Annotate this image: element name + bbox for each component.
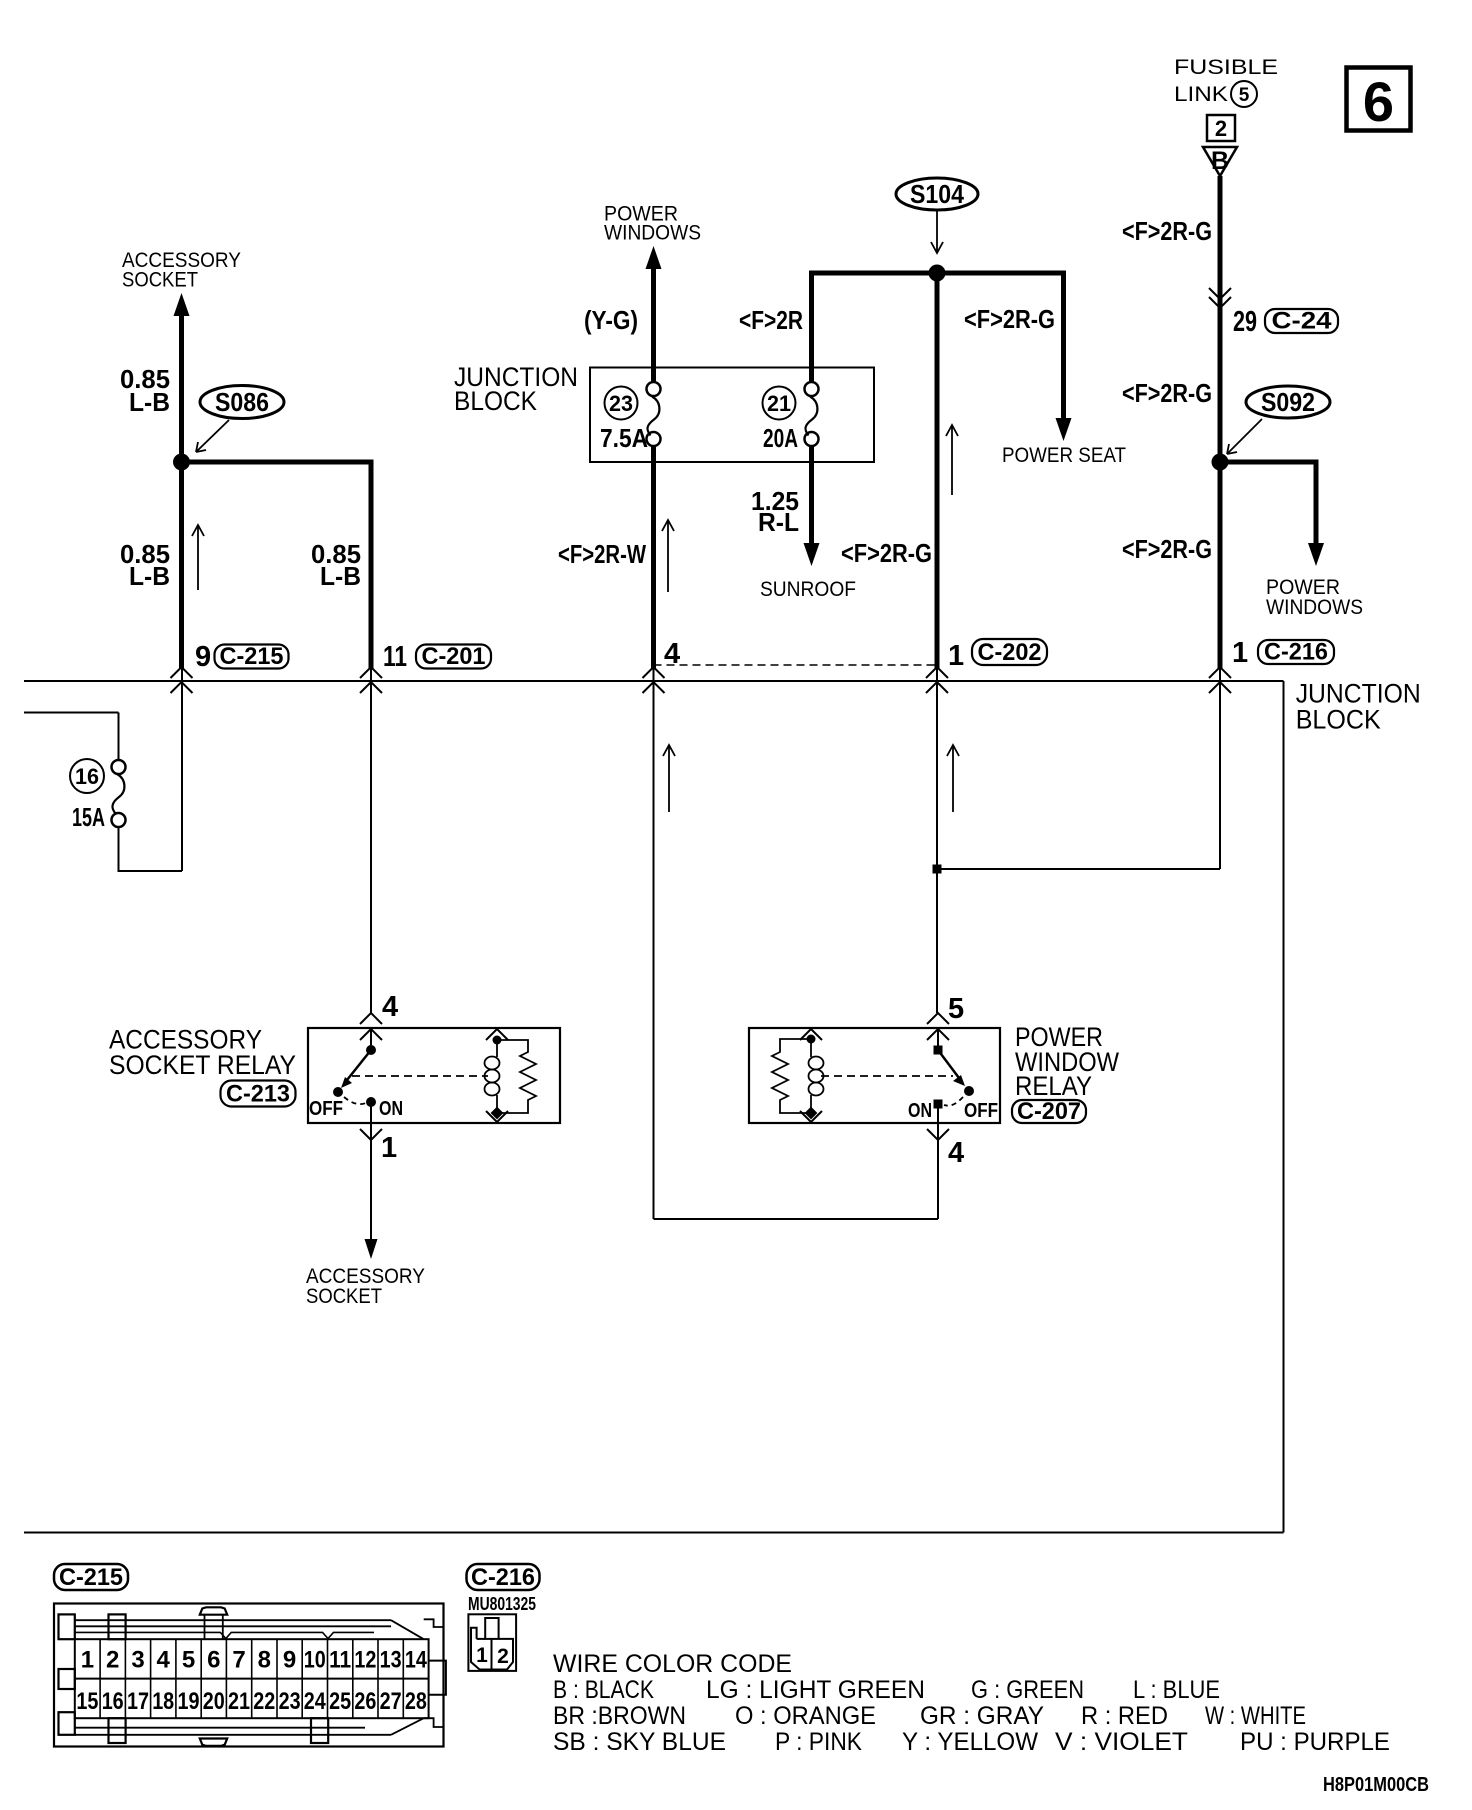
svg-text:PU : PURPLE: PU : PURPLE [1240, 1728, 1390, 1756]
page number box 6 [1347, 68, 1411, 131]
svg-text:H8P01M00CB: H8P01M00CB [1323, 1774, 1429, 1796]
ON contact dot [366, 1097, 376, 1107]
svg-text:4: 4 [157, 1647, 171, 1674]
connector C-213 (label) [221, 1081, 296, 1107]
svg-text:Y : YELLOW: Y : YELLOW [902, 1728, 1038, 1756]
svg-text:25: 25 [329, 1688, 351, 1715]
svg-text:W : WHITE: W : WHITE [1205, 1702, 1306, 1730]
circled 23 [605, 387, 638, 420]
chevrons pin 1 C-216 entry [1209, 667, 1231, 678]
svg-text:13: 13 [380, 1647, 402, 1674]
connector C-24 (pin label) [1265, 309, 1338, 333]
fuse 16 element (two circles + S-curve) [112, 760, 126, 774]
svg-text:ON: ON [379, 1098, 403, 1120]
wire: fuse 16 lower lead [118, 827, 120, 872]
svg-text:OFF: OFF [964, 1100, 998, 1122]
svg-text:9: 9 [283, 1647, 296, 1674]
dashed link pin4 to pin1 [654, 664, 938, 666]
relay coil (left relay) [486, 1029, 508, 1040]
flow arrow (thin) x=952 [951, 426, 953, 495]
svg-text:FUSIBLE: FUSIBLE [1174, 56, 1278, 79]
svg-text:L-B: L-B [320, 561, 361, 591]
chevrons pin 4 relay entry [360, 1013, 382, 1024]
wire: pin9 tail inside junction block [181, 668, 183, 871]
wire: fusible link feed x=1220 [1218, 176, 1223, 668]
node S092 junction dot [1212, 454, 1229, 471]
svg-text:B: B [1211, 147, 1229, 175]
svg-text:C-213: C-213 [226, 1081, 290, 1108]
svg-text:24: 24 [304, 1688, 327, 1715]
svg-text:LG : LIGHT GREEN: LG : LIGHT GREEN [706, 1676, 925, 1704]
svg-text:3: 3 [131, 1647, 144, 1674]
circled 21 [763, 387, 796, 420]
svg-text:2: 2 [106, 1647, 119, 1674]
arrow to accessory socket (bottom) [365, 1239, 378, 1259]
wire: elbow down to fuse 21 [809, 271, 814, 383]
svg-text:SOCKET RELAY: SOCKET RELAY [109, 1050, 296, 1080]
svg-text:21: 21 [767, 391, 791, 416]
svg-text:R-L: R-L [758, 507, 799, 537]
connector C-215 pin numbers row 1 [81, 1647, 428, 1674]
svg-text:11: 11 [383, 641, 407, 673]
wire: branch down x=1316 [1314, 460, 1319, 546]
junction block fuse box [590, 368, 874, 463]
node S086 junction dot [173, 454, 190, 471]
power window relay box C-207 [749, 1028, 1000, 1123]
svg-text:2: 2 [497, 1645, 509, 1668]
svg-text:7: 7 [232, 1647, 245, 1674]
wire: relay pin1 down to accessory socket arrow [370, 1102, 372, 1240]
wire: power seat branch down x=1063.5 [1061, 271, 1066, 421]
svg-text:18: 18 [152, 1688, 174, 1715]
svg-text:SB : SKY BLUE: SB : SKY BLUE [553, 1728, 726, 1756]
svg-text:10: 10 [304, 1647, 326, 1674]
wire: x=371 down to C-201 pin 11 [369, 460, 374, 668]
switch arm to OFF [347, 1050, 371, 1080]
wire: fuse 16 branch horizontal y=871 [119, 870, 183, 872]
connector C-201 (pin label) [416, 645, 491, 669]
svg-text:RELAY: RELAY [1015, 1071, 1092, 1101]
connector C-216 drawing [468, 1614, 516, 1671]
svg-text:23: 23 [279, 1688, 301, 1715]
wire: fuse 16 upper lead [118, 713, 120, 761]
svg-text:V : VIOLET: V : VIOLET [1055, 1728, 1188, 1756]
splice S104 [896, 178, 978, 210]
svg-text:17: 17 [127, 1688, 149, 1715]
svg-text:C-207: C-207 [1017, 1098, 1081, 1125]
svg-text:G : GREEN: G : GREEN [971, 1676, 1084, 1704]
svg-text:C-215: C-215 [59, 1564, 123, 1591]
junction block right boundary [1283, 681, 1285, 1533]
chevrons pin 11 at junction block entry [360, 667, 382, 678]
circled 16 [70, 759, 104, 793]
svg-text:19: 19 [178, 1688, 200, 1715]
wire: thick bus y=273 [809, 271, 1066, 276]
relay switch (right): wire into pivot [937, 1029, 939, 1050]
svg-text:1: 1 [1232, 637, 1248, 669]
svg-text:C-202: C-202 [978, 639, 1042, 666]
relay switch (left): wire into pivot [370, 1029, 372, 1050]
svg-text:16: 16 [102, 1688, 124, 1715]
arrow to accessory socket (top left) [174, 293, 190, 316]
svg-text:2: 2 [1215, 116, 1227, 141]
wire: horizontal y=1219 [654, 1218, 939, 1220]
svg-text:23: 23 [609, 391, 633, 416]
svg-text:20: 20 [203, 1688, 225, 1715]
wire color code line 2 [553, 1702, 1306, 1730]
dashed arc OFF to ON [344, 1097, 366, 1104]
svg-text:6: 6 [1363, 70, 1394, 133]
svg-text:4: 4 [382, 991, 398, 1023]
svg-text:5: 5 [948, 993, 964, 1025]
arrow to power windows (right) [1308, 543, 1324, 566]
svg-text:P : PINK: P : PINK [775, 1728, 862, 1756]
svg-text:C-215: C-215 [220, 643, 284, 670]
arrow to power seat [1056, 418, 1072, 441]
svg-text:WINDOWS: WINDOWS [1266, 596, 1363, 619]
svg-text:C-201: C-201 [422, 643, 486, 670]
svg-text:L : BLUE: L : BLUE [1133, 1676, 1220, 1704]
dashed actuation line to coil [821, 1075, 953, 1077]
leader arrow from S104 down to node [936, 211, 938, 252]
svg-text:<F>2R-G: <F>2R-G [841, 538, 932, 568]
svg-text:9: 9 [195, 641, 211, 673]
svg-text:28: 28 [405, 1688, 427, 1715]
flow arrow (thin) x=669 inside block [668, 746, 670, 812]
wire: x=653.5 below fuse box down to junction block [651, 446, 656, 668]
svg-text:WINDOWS: WINDOWS [604, 222, 701, 245]
svg-text:15A: 15A [72, 802, 105, 832]
leader arrow from S092 to node [1228, 419, 1262, 453]
svg-text:R : RED: R : RED [1081, 1702, 1168, 1730]
svg-text:4: 4 [948, 1137, 964, 1169]
connector C-215 drawing [54, 1604, 446, 1747]
svg-text:<F>2R: <F>2R [739, 305, 803, 335]
svg-text:20A: 20A [763, 423, 798, 453]
svg-text:21: 21 [228, 1688, 250, 1715]
svg-text:WIRE COLOR CODE: WIRE COLOR CODE [553, 1650, 792, 1678]
svg-text:ON: ON [908, 1100, 932, 1122]
wire: horizontal y=869 joining x=1220 to x=937 [937, 868, 1220, 870]
battery triangle with B [1203, 147, 1237, 176]
connector C-215 (pin label) [215, 645, 289, 669]
node square junction dot (937,869) [933, 865, 942, 874]
circled 5 (fusible link number) [1231, 81, 1257, 107]
svg-text:SOCKET: SOCKET [122, 269, 198, 292]
svg-text:16: 16 [75, 764, 99, 789]
wire: x=181.5 down to C-215 pin 9 [179, 462, 184, 668]
junction block top boundary line [24, 680, 1284, 682]
svg-text:1: 1 [476, 1644, 488, 1667]
svg-text:C-24: C-24 [1272, 308, 1333, 335]
wire: pin4 tail inside junction block x=653.5 [653, 668, 655, 1219]
svg-text:POWER SEAT: POWER SEAT [1002, 444, 1126, 467]
svg-text:OFF: OFF [309, 1098, 343, 1120]
svg-text:LINK: LINK [1174, 83, 1228, 106]
svg-text:C-216: C-216 [471, 1564, 535, 1591]
wire: to left edge y=712.5 [24, 712, 119, 714]
relay coil (right relay) [800, 1029, 822, 1040]
wire: power windows feed x=653.5 above fuse box [651, 263, 656, 382]
chevrons pin 4 entry [643, 667, 665, 678]
svg-text:S092: S092 [1261, 387, 1315, 417]
svg-text:1: 1 [381, 1132, 397, 1164]
flow arrow (thin) x=668 above junction block [667, 521, 669, 592]
connector C-215 (bottom label) [54, 1564, 128, 1590]
svg-text:S104: S104 [910, 179, 964, 209]
wire color code line 3 [553, 1728, 1390, 1756]
svg-text:B : BLACK: B : BLACK [553, 1676, 654, 1704]
svg-text:BLOCK: BLOCK [454, 386, 537, 416]
svg-text:S086: S086 [215, 387, 269, 417]
svg-text:7.5A: 7.5A [600, 423, 648, 453]
pivot contact dot [366, 1045, 376, 1055]
splice S092 [1246, 386, 1330, 418]
wire: horizontal branch y=462 [182, 460, 374, 465]
svg-text:SUNROOF: SUNROOF [760, 578, 856, 601]
wire color code line 1 [553, 1676, 1220, 1704]
double chevron page-crossing marker on x=1220 [1209, 288, 1231, 299]
chevron below relay (pin 4) [927, 1129, 949, 1140]
wire: accessory socket feed, vertical thick x=181.5 [179, 310, 184, 462]
chevrons pin 1 C-202 entry [926, 667, 948, 678]
svg-text:BR :BROWN: BR :BROWN [553, 1702, 686, 1730]
connector C-216 (pin label) [1258, 640, 1334, 664]
svg-text:MU801325: MU801325 [468, 1594, 536, 1614]
pivot contact square [934, 1046, 943, 1055]
OFF contact dot [964, 1086, 974, 1096]
svg-text:<F>2R-W: <F>2R-W [558, 539, 646, 569]
svg-text:6: 6 [207, 1647, 220, 1674]
wire: branch right y=462 [1220, 460, 1319, 465]
svg-text:26: 26 [354, 1688, 376, 1715]
svg-text:22: 22 [253, 1688, 275, 1715]
wire: pin1 C-216 tail inside junction block x=1220 [1219, 668, 1221, 869]
svg-text:12: 12 [354, 1647, 376, 1674]
leader arrow from S086 to node [197, 420, 229, 451]
svg-text:SOCKET: SOCKET [306, 1285, 382, 1308]
relay resistor (left relay) [497, 1040, 536, 1113]
svg-text:14: 14 [405, 1647, 428, 1674]
svg-text:(Y-G): (Y-G) [584, 305, 638, 335]
svg-text:5: 5 [182, 1647, 195, 1674]
arrow to sunroof [804, 543, 820, 566]
svg-text:<F>2R-G: <F>2R-G [1122, 534, 1212, 564]
svg-text:1: 1 [948, 640, 964, 672]
wire: pin11 tail inside junction block x=371 [370, 668, 372, 1013]
flow arrow (thin) beside wire x=198 [197, 526, 199, 590]
node S104 junction dot [929, 265, 946, 282]
dashed arc OFF to ON [944, 1097, 963, 1106]
svg-text:<F>2R-G: <F>2R-G [964, 304, 1055, 334]
svg-text:27: 27 [380, 1688, 402, 1715]
svg-text:<F>2R-G: <F>2R-G [1122, 378, 1212, 408]
fuse 23 element [647, 382, 661, 396]
chevrons pin 5 relay entry [927, 1013, 949, 1024]
ON contact square [934, 1100, 943, 1109]
wire: relay pin4 down x=938 [937, 1104, 939, 1219]
junction block bottom boundary [24, 1532, 1284, 1534]
switch arm to OFF [938, 1050, 959, 1078]
svg-text:1: 1 [81, 1647, 94, 1674]
wire: pin1 C-202 tail inside junction block x=937 [936, 668, 938, 1013]
accessory socket relay box C-213 [308, 1028, 560, 1123]
splice S086 [200, 386, 284, 419]
svg-text:O : ORANGE: O : ORANGE [735, 1702, 876, 1730]
svg-text:5: 5 [1239, 85, 1250, 106]
svg-text:15: 15 [76, 1688, 98, 1715]
svg-text:L-B: L-B [129, 561, 170, 591]
svg-text:11: 11 [329, 1647, 351, 1674]
flow arrow (thin) x=953 inside block [952, 746, 954, 812]
svg-text:C-216: C-216 [1264, 639, 1328, 666]
connector C-207 (label) [1012, 1100, 1086, 1123]
svg-text:29: 29 [1233, 306, 1257, 338]
svg-text:<F>2R-G: <F>2R-G [1122, 216, 1212, 246]
arrow to power windows (top middle) [646, 246, 662, 269]
chevrons pin 9 at junction block entry [171, 667, 193, 678]
svg-text:L-B: L-B [129, 387, 170, 417]
svg-text:8: 8 [258, 1647, 271, 1674]
svg-text:BLOCK: BLOCK [1296, 705, 1381, 735]
connector C-202 (pin label) [972, 639, 1047, 665]
wire: S104 node down x=937 to C-202 pin 1 [935, 273, 940, 668]
svg-text:GR : GRAY: GR : GRAY [920, 1702, 1044, 1730]
dashed actuation line to coil [352, 1075, 488, 1077]
connector C-215 pin numbers row 2 [76, 1688, 427, 1715]
fuse 21 element [805, 382, 819, 396]
boxed 2 (power source page ref) [1207, 115, 1235, 141]
OFF contact dot [333, 1087, 343, 1097]
chevron below relay (pin 1) [360, 1129, 382, 1140]
wire: sunroof feed below fuse 21 [809, 446, 814, 545]
relay resistor (right relay) [772, 1039, 811, 1113]
connector C-216 (bottom label) [467, 1564, 540, 1590]
